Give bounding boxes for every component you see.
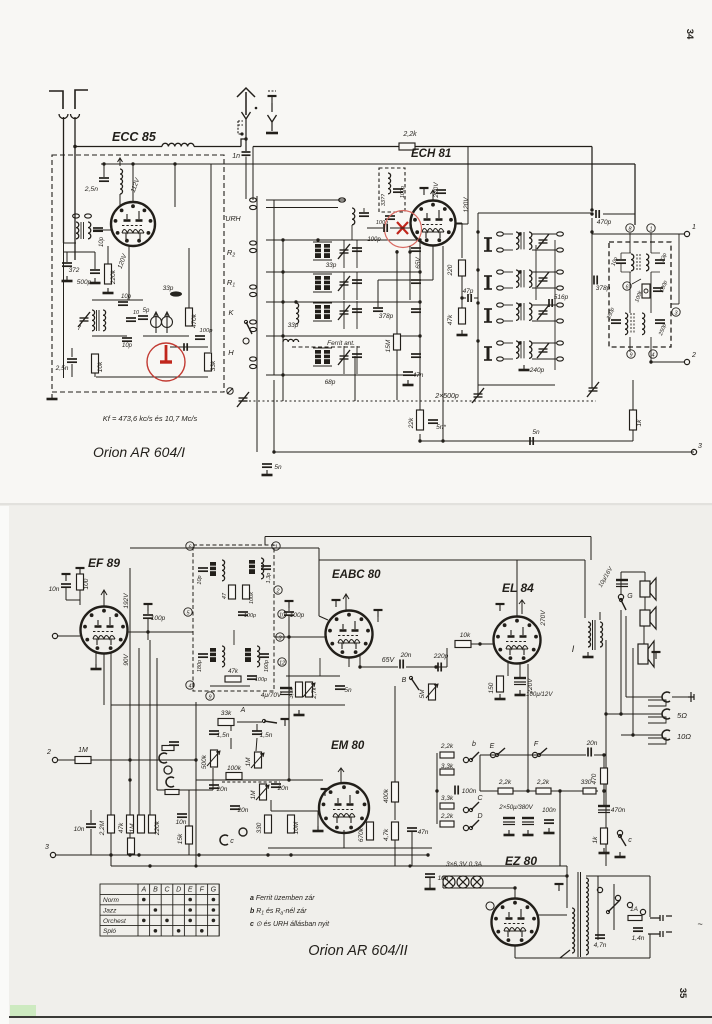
wire 10k link [94, 373, 96, 377]
svg-text:330: 330 [256, 822, 263, 833]
wire IF row3 bot [504, 320, 513, 322]
inductor IF2 T2 L [249, 560, 255, 574]
svg-text:E: E [490, 743, 495, 750]
wire IF row3 rt [532, 304, 556, 306]
speaker 2 [640, 607, 656, 629]
resistor 33k [205, 353, 212, 371]
capacitor 100p osc box [393, 189, 403, 192]
svg-text:1k: 1k [592, 836, 599, 844]
svg-text:270V: 270V [540, 610, 547, 627]
switch K blade [244, 320, 252, 334]
switch K hook [243, 338, 249, 344]
wire 2.5n link [71, 364, 73, 377]
wire bottom mid bus [420, 440, 633, 442]
wire lamps top [443, 875, 567, 877]
switch A tone [262, 719, 277, 723]
contact IF row3 d [557, 319, 564, 323]
wire mains net right [649, 876, 651, 917]
svg-text:33k: 33k [221, 710, 232, 717]
inductor IF row3 L [516, 303, 519, 320]
trimmer row4 [338, 350, 350, 365]
wire IF row1 bot [504, 249, 513, 251]
wire choke to tube [119, 194, 121, 205]
red mark circle B [147, 343, 185, 381]
lamp dial 3 [471, 876, 483, 888]
capacitor bank right y276 [411, 280, 421, 283]
tbar 100p mid [285, 601, 294, 608]
wire rail x139 [138, 648, 140, 828]
svg-text:47k: 47k [447, 314, 454, 325]
resistor 47k [459, 308, 466, 324]
wire 220 to 47k [461, 276, 463, 308]
resistor 220k tone [149, 815, 156, 833]
svg-text:10p: 10p [122, 343, 133, 349]
switch E [495, 748, 505, 757]
svg-text:10p: 10p [197, 575, 203, 584]
wire heater down [514, 888, 516, 898]
switch b ladder [469, 752, 479, 762]
trimmer IF row2 [537, 272, 549, 287]
capacitor 5n mid [530, 437, 533, 445]
pot arrow 500k [207, 751, 220, 766]
wire 1n down into unit [245, 157, 247, 200]
inductor input transformer primary [76, 222, 79, 239]
wire 47p right [474, 297, 478, 299]
wire IF row1 rb [532, 249, 556, 251]
wire join ef top [66, 599, 80, 601]
ground 50u a [504, 830, 515, 835]
resistor 100k det [642, 284, 650, 298]
antenna AM right [75, 90, 88, 109]
svg-text:470p: 470p [597, 219, 612, 226]
capacitor det 33p [655, 260, 665, 263]
ground box [47, 394, 58, 399]
wire plate feed 1 [174, 164, 176, 207]
wire if top bus [478, 212, 592, 214]
jack pickup A circle [164, 766, 172, 774]
wire antenna bus to coil [75, 146, 162, 148]
core RF row2 [313, 274, 332, 292]
svg-text:400k: 400k [383, 788, 390, 803]
capacitor 10n input [61, 584, 71, 587]
switch D ladder [469, 820, 479, 830]
wire ech cathode long [442, 246, 444, 441]
wire det feed b [650, 233, 652, 253]
antenna AM left spark-gap cup [59, 114, 68, 119]
wire eabc down [348, 658, 350, 667]
wire ech grid2 [390, 227, 411, 229]
variable inductor osc B [162, 312, 173, 333]
svg-text:EL 84: EL 84 [502, 581, 534, 595]
resistor 10M em [128, 838, 135, 854]
wire ladder right to EF row [479, 755, 481, 791]
arrow eabc top [343, 594, 349, 610]
svg-text:2,2M: 2,2M [99, 820, 106, 836]
node tone rail b [194, 758, 197, 761]
wire det t1 l2 [620, 264, 622, 272]
node box out [287, 635, 290, 638]
contact circle tone [239, 828, 247, 836]
wire switch to bottom [256, 370, 258, 452]
capacitor row3 [352, 309, 362, 312]
capacitor 47n em [407, 828, 417, 831]
wire 100p ef stem [147, 606, 149, 614]
wire 100p down [147, 619, 149, 640]
capacitor 20n c [271, 784, 281, 787]
inductor mains secondary [586, 878, 588, 955]
node pin10 b [278, 610, 286, 619]
wire trimmer stem row4 [343, 346, 345, 374]
node bus a [418, 439, 421, 442]
svg-text:Jazz: Jazz [102, 907, 117, 914]
node bus II g [197, 853, 200, 856]
wire lamps bottom [443, 887, 515, 889]
wire trafo tap rail [605, 640, 607, 866]
contact band switch 2 [250, 205, 257, 209]
svg-text:5M: 5M [419, 689, 426, 699]
svg-text:EZ 80: EZ 80 [505, 854, 537, 868]
trimmer row1 [338, 244, 350, 259]
svg-text:5p: 5p [143, 308, 150, 314]
wire lamp left drop [442, 876, 444, 888]
pot arrow 5M [426, 684, 438, 698]
resistor 2.2k d [440, 821, 454, 827]
svg-text:10n: 10n [49, 586, 60, 593]
wire rail x130 [129, 568, 131, 856]
trimmer gang A [237, 392, 249, 407]
svg-text:33p: 33p [163, 285, 174, 292]
wire cap stem row3 [356, 301, 358, 329]
wire input down [66, 252, 68, 262]
svg-text:3: 3 [45, 844, 49, 851]
node pin1 [647, 224, 655, 233]
pot arrow 2.7k [303, 683, 315, 697]
heptode ECH 81 [411, 201, 456, 246]
svg-text:100p: 100p [290, 612, 305, 619]
svg-text:B: B [402, 677, 407, 684]
svg-text:1k: 1k [636, 419, 643, 427]
wire 47p left [462, 297, 466, 299]
wire mains bottom right [586, 957, 650, 959]
svg-text:H: H [228, 348, 234, 357]
plug pin 1 [650, 915, 672, 921]
svg-text:15k: 15k [177, 833, 184, 844]
capacitor 10p a [118, 302, 128, 305]
svg-text:1: 1 [692, 224, 696, 231]
svg-text:2,2k: 2,2k [498, 779, 512, 786]
wire rail x157 [156, 658, 158, 790]
node bus II b [194, 864, 197, 867]
wire em80 top wire [289, 779, 323, 781]
wire bank row at y240 [266, 239, 420, 241]
contact IF row1 d [557, 248, 564, 252]
core IF row1 [521, 232, 524, 249]
wire rail x111 [110, 652, 112, 866]
resistor 4.7k em [392, 822, 399, 840]
trimmer IF row3 [537, 305, 549, 320]
wire if right bus [591, 218, 593, 388]
node bank right 4 [418, 334, 421, 337]
tbar eabc left [332, 600, 341, 607]
capacitor 470n ps [598, 806, 610, 813]
inductor IF row3 R [529, 303, 532, 320]
capacitor bank right y350 [411, 354, 421, 357]
capacitor 5n bottom left [262, 464, 272, 467]
svg-text:Kf = 473,6 kc/s és 10,7 Mc/s: Kf = 473,6 kc/s és 10,7 Mc/s [103, 414, 198, 423]
wire em col down [394, 840, 396, 866]
inductor RF coil bank row4 R [324, 350, 330, 364]
inductor row4 link [283, 339, 299, 342]
wire rail x150 [149, 640, 151, 820]
svg-text:4,7k: 4,7k [383, 828, 390, 841]
node ps b [558, 789, 561, 792]
node coil row5 a [281, 373, 284, 376]
node pin1 b [272, 542, 280, 551]
wire mains net v2 [613, 884, 615, 930]
contact IF row2 d [557, 286, 564, 290]
wire eabc bias drop [319, 658, 321, 676]
resistor pickup series [162, 746, 174, 751]
wire to terminal 2 [651, 361, 684, 363]
node pin6 [623, 282, 631, 291]
wire 500p up [94, 252, 96, 269]
svg-text:3,3k: 3,3k [441, 763, 454, 770]
tbar switch A [281, 719, 290, 726]
svg-text:670k: 670k [358, 827, 365, 842]
capacitor 180p [198, 654, 208, 657]
wire cap stem row4 [356, 346, 358, 374]
wire IF row1 rt [532, 233, 556, 235]
capacitor 20n ps [588, 748, 591, 757]
capacitor 2.5n cathode [67, 359, 77, 362]
wire jack1 to gnd [672, 696, 688, 698]
switch F [537, 748, 547, 757]
svg-text:1: 1 [274, 544, 277, 550]
svg-text:12: 12 [279, 660, 285, 666]
contact E [490, 752, 495, 757]
wire 470p right [603, 213, 635, 215]
svg-text:1M: 1M [245, 757, 252, 767]
capacitor det 10p [616, 260, 626, 263]
svg-text:10k: 10k [460, 632, 471, 639]
wire osc row [143, 335, 189, 337]
wire to terminal 1 [592, 233, 684, 235]
wire right rail 33k [210, 164, 212, 352]
wire jack3 h [621, 734, 662, 736]
capacitor det 100p [653, 288, 663, 291]
svg-text:3,3k: 3,3k [289, 686, 295, 698]
svg-text:500k: 500k [201, 754, 208, 769]
capacitor 5n star [428, 420, 438, 423]
wire ps top row [480, 754, 586, 756]
wire switch row to mixer a [266, 199, 346, 201]
wire G link top [621, 571, 645, 573]
contact mains 4 [640, 909, 645, 914]
capacitor 100n fb [455, 786, 458, 795]
wire ech grid [367, 227, 383, 229]
svg-text:160p: 160p [264, 660, 270, 672]
inductor IF row4 L [516, 341, 519, 358]
svg-text:500p: 500p [77, 279, 92, 286]
antenna FM spark fork [242, 112, 251, 119]
wire 1M to rail [91, 759, 196, 761]
node pin3 b [276, 633, 284, 642]
inductor RF coil bank row1 L [315, 244, 321, 258]
contact band switch 7 [250, 320, 257, 324]
svg-text:90V: 90V [123, 654, 130, 666]
wire plate to trafo [584, 560, 586, 618]
wire top bus right drop [590, 537, 592, 561]
inductor UKW choke [120, 169, 123, 194]
svg-text:2: 2 [275, 588, 279, 594]
svg-text:10Ω: 10Ω [677, 732, 691, 741]
ground 5n bottom [262, 470, 273, 475]
wire IF row3 top [504, 304, 513, 306]
resistor 47k if2 [225, 676, 241, 682]
capacitor pickup [169, 742, 179, 745]
wire cap stem row2 [356, 272, 358, 300]
wire plate col [461, 223, 463, 258]
node el84 grid [478, 642, 481, 645]
node bus II d [109, 853, 112, 856]
ground 372 [62, 276, 73, 281]
svg-text:2,5n: 2,5n [84, 186, 98, 193]
wire input row y252 [64, 251, 96, 253]
red mark circle A [385, 211, 422, 248]
node coil row1 b [316, 238, 319, 241]
svg-text:Orion AR 604/I: Orion AR 604/I [93, 444, 185, 460]
pentode EL 84 [494, 617, 541, 664]
capacitor 10p b [122, 338, 132, 341]
wire spk1-2 [644, 597, 646, 610]
capacitor 20n b [230, 806, 240, 809]
capacitor row1 [352, 248, 362, 251]
ground 500p [90, 278, 101, 283]
wire 100p mid down [288, 616, 290, 780]
node pin5 b [184, 608, 192, 617]
inductor det L2 [646, 254, 649, 271]
ground 47n [403, 380, 414, 385]
switch G [619, 598, 626, 610]
wire pin6 point [632, 279, 641, 284]
wire tuning gang dotted [240, 400, 596, 402]
jack frame 1 [648, 700, 666, 706]
red mark X A [397, 222, 408, 234]
capacitor 220p [438, 663, 441, 672]
svg-text:D: D [176, 887, 181, 894]
svg-text:240p: 240p [529, 367, 545, 374]
contact D [463, 825, 468, 830]
svg-text:2,5n: 2,5n [55, 365, 69, 372]
wire 15k down [188, 844, 190, 855]
tbar ech top [420, 188, 429, 195]
contact b [463, 757, 468, 762]
wire jack1 h [626, 696, 662, 698]
wire 470 up [603, 755, 605, 768]
core det T1 [637, 254, 640, 271]
capacitor row4 [352, 354, 362, 357]
resistor 2.7k a [306, 682, 313, 697]
wire eabc topleft v [318, 548, 320, 616]
wire IF row4 rt [532, 342, 556, 344]
wire IF bank bottom [478, 384, 555, 386]
svg-text:3×6,3V 0,3A: 3×6,3V 0,3A [446, 861, 482, 868]
inductor mains primary [572, 908, 575, 953]
speaker 1 [640, 578, 656, 600]
plug pin 2 [648, 931, 672, 937]
contact IF row1 b [497, 248, 504, 252]
wire bank row at y336 [266, 335, 420, 337]
wire eabc bias row [286, 675, 340, 677]
node FM junction [244, 137, 247, 140]
wire 1k bottom [632, 430, 634, 441]
svg-text:1,3p: 1,3p [266, 573, 272, 584]
wire box left col [63, 243, 65, 378]
node bus c [590, 208, 593, 211]
contact input top [73, 214, 80, 218]
svg-text:5n: 5n [532, 429, 540, 436]
wire ladder left rail [436, 753, 438, 824]
node pin12 b [278, 658, 286, 667]
capacitor 5p [138, 316, 148, 319]
antenna aux T [268, 96, 277, 103]
aux antenna dashes [268, 90, 276, 92]
node det v [649, 360, 652, 363]
wire sec to lamps [566, 876, 568, 908]
capacitor 470p top [596, 210, 599, 218]
contact input top2 [85, 214, 92, 218]
pot arrow 1Mb [256, 785, 269, 800]
wire ferrit dash [292, 346, 360, 348]
wire top bus corner down [591, 147, 593, 211]
wire spk1 feed [644, 572, 646, 581]
svg-text:7: 7 [77, 325, 81, 332]
jack output 5ohm [662, 709, 670, 719]
resistor 150 [497, 676, 504, 692]
svg-text:10M: 10M [293, 821, 300, 834]
svg-text:33??: 33?? [381, 193, 387, 206]
node IF row2 [518, 270, 521, 273]
wire mains right v [649, 934, 651, 958]
wire bank right bus [419, 240, 421, 402]
wire aux antenna lower [271, 122, 273, 131]
inductor RF coil bank row1 R [324, 244, 330, 258]
node IF row4 [518, 341, 521, 344]
capacitor det 250p b [655, 320, 665, 323]
node 330/470 [602, 789, 605, 792]
core IF row2 [521, 270, 524, 287]
wire em80 frame top [195, 702, 197, 866]
node tone rail c [128, 778, 131, 781]
capacitor 100p mid [284, 612, 294, 615]
capacitor 1.5n b [252, 731, 262, 734]
wire mains net top [586, 875, 650, 877]
wire 15M up [396, 250, 398, 334]
svg-text:100p: 100p [200, 328, 214, 334]
svg-text:4,7n: 4,7n [594, 942, 607, 949]
svg-text:G: G [627, 593, 633, 600]
wire if inner v1 [554, 240, 556, 370]
tbar 100p ef [144, 604, 153, 611]
contact IF row1 a [497, 232, 504, 236]
capacitor 100p osc box2 [385, 216, 395, 219]
wire el84 cath2 [519, 664, 521, 677]
trimmer gang B [472, 388, 484, 403]
resistor 100 ef [77, 574, 84, 590]
ground c ps [615, 852, 626, 857]
node coil row3 a [281, 300, 284, 303]
svg-text:68p: 68p [325, 379, 336, 386]
